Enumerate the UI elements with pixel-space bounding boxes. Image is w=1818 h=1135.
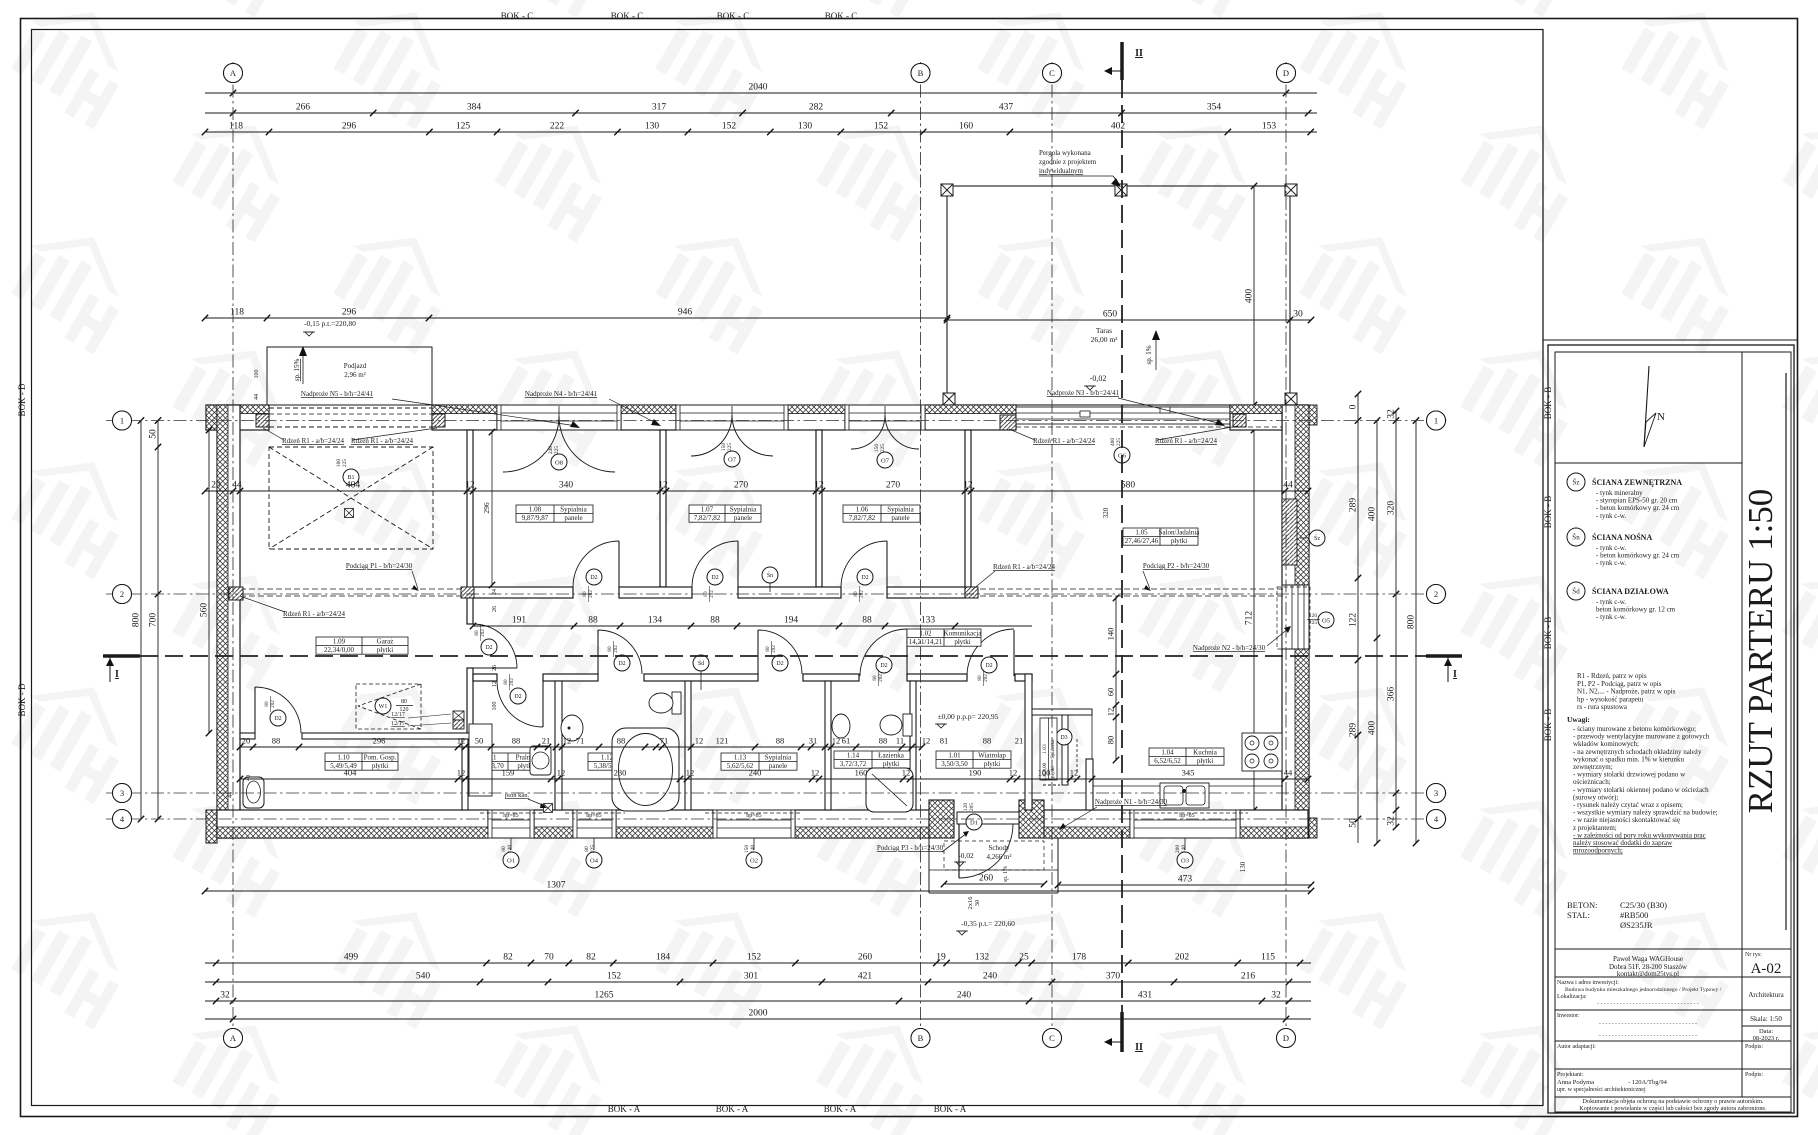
svg-text:BOK - C: BOK - C (611, 11, 644, 21)
W1 workbench dashed (356, 684, 421, 729)
svg-text:384: 384 (467, 103, 482, 113)
svg-text:- tynk c-w.: - tynk c-w. (1596, 559, 1626, 567)
svg-text:580: 580 (1121, 481, 1136, 491)
dim row 118/296/946 (202, 308, 950, 322)
room 1.07 (689, 505, 761, 522)
bottom exterior wall segments (217, 810, 488, 838)
dim row 266/384/317/282/437/354 (205, 103, 1317, 117)
dim row 118..153 (202, 122, 1317, 136)
svg-text:402: 402 (1111, 122, 1126, 132)
svg-text:133: 133 (921, 616, 936, 626)
svg-text:190: 190 (969, 768, 982, 778)
svg-text:D: D (1283, 1033, 1289, 1043)
svg-text:kontakt@dom25tys.pl: kontakt@dom25tys.pl (1617, 970, 1679, 978)
svg-text:O7: O7 (881, 457, 890, 464)
svg-text:121: 121 (716, 736, 729, 746)
svg-text:STAL:: STAL: (1567, 910, 1590, 920)
svg-text:140: 140 (1181, 845, 1187, 854)
svg-text:194: 194 (784, 616, 799, 626)
svg-text:404: 404 (346, 481, 361, 491)
svg-text:12: 12 (557, 768, 566, 778)
svg-text:21: 21 (542, 736, 551, 746)
spizarka rotated table (1040, 718, 1057, 780)
north arrow section (1555, 462, 1742, 464)
kitchen stub wall (1086, 759, 1093, 810)
svg-text:Pom. Gosp.: Pom. Gosp. (364, 753, 397, 761)
left dim col 50/700 (149, 417, 162, 822)
room 1.09 Garaz (316, 637, 408, 654)
title block inner frame (1555, 352, 1791, 1112)
svg-text:44: 44 (1284, 768, 1293, 778)
svg-text:160: 160 (855, 768, 868, 778)
svg-text:1.04: 1.04 (1161, 748, 1174, 756)
svg-text:Kuchnia: Kuchnia (1193, 748, 1218, 756)
svg-text:202: 202 (1175, 953, 1190, 963)
core in right wall (1282, 499, 1297, 565)
svg-text:Podciąg P1 - b/h=24/30: Podciąg P1 - b/h=24/30 (346, 562, 413, 570)
svg-text:153: 153 (1262, 122, 1277, 132)
svg-text:W1: W1 (379, 704, 388, 710)
bottom dim row 499..115 (205, 953, 1311, 967)
svg-text:Lokalizacja:: Lokalizacja: (1557, 994, 1587, 1000)
svg-text:160: 160 (959, 122, 974, 132)
svg-text:-0,02: -0,02 (958, 851, 974, 860)
title area divider line (1542, 30, 1544, 1106)
window O3 kitchen (1130, 810, 1240, 838)
svg-text:- tynk c-w.: - tynk c-w. (1596, 512, 1626, 520)
pergola posts (941, 184, 953, 196)
svg-text:2: 2 (1434, 589, 1438, 599)
svg-text:122: 122 (1349, 613, 1359, 628)
svg-text:Wiatrołap: Wiatrołap (978, 751, 1006, 759)
svg-text:12: 12 (457, 768, 466, 778)
wall type bubbles (762, 567, 778, 583)
section marker I left (103, 654, 140, 658)
room 1.13 (721, 753, 797, 770)
svg-text:88: 88 (588, 616, 598, 626)
svg-text:BOK - A: BOK - A (716, 1104, 749, 1114)
corridor north wall segments (473, 587, 573, 598)
grid bubbles (over lines) (224, 64, 243, 83)
svg-text:88: 88 (512, 736, 521, 746)
svg-text:301: 301 (744, 972, 759, 982)
svg-text:Uwagi:: Uwagi: (1567, 715, 1590, 724)
door pom.gosp (254, 687, 256, 733)
right exterior wall (1282, 405, 1309, 838)
svg-text:202: 202 (480, 629, 486, 637)
spizarka walls (1032, 709, 1092, 715)
svg-text:473: 473 (1178, 875, 1193, 885)
svg-text:130: 130 (645, 122, 660, 132)
svg-text:ŚCIANA ZEWNĘTRZNA: ŚCIANA ZEWNĘTRZNA (1592, 477, 1682, 487)
svg-text:88: 88 (983, 736, 992, 746)
garage south wall (240, 733, 255, 739)
svg-text:40: 40 (246, 775, 252, 781)
svg-text:Schody: Schody (989, 844, 1011, 852)
svg-text:D1: D1 (970, 819, 978, 826)
bottom dim row 32/1265/431/32 (205, 991, 1311, 1005)
corridor south wall segments (473, 674, 497, 681)
svg-text:82: 82 (503, 953, 513, 963)
interior wall 1.07|1.06 (816, 430, 822, 587)
svg-text:650: 650 (1103, 310, 1118, 320)
section line I-I horizontal (140, 655, 1426, 657)
svg-text:499: 499 (344, 953, 359, 963)
svg-text:Śz: Śz (1314, 534, 1320, 542)
svg-text:70: 70 (544, 953, 554, 963)
svg-text:6,52/6,52: 6,52/6,52 (1154, 757, 1181, 765)
svg-text:Rdzeń R1 - a/b=24/24: Rdzeń R1 - a/b=24/24 (993, 563, 1056, 571)
svg-text:12: 12 (658, 481, 668, 491)
svg-text:D2: D2 (514, 694, 521, 700)
svg-text:100: 100 (254, 370, 260, 379)
window reference bubbles below (510, 838, 512, 850)
svg-text:270: 270 (886, 481, 901, 491)
svg-text:C: C (1049, 68, 1055, 78)
svg-text:296: 296 (342, 122, 357, 132)
dim row 650/30 (944, 310, 1314, 324)
svg-text:C: C (1049, 1033, 1055, 1043)
svg-text:Sypialnia: Sypialnia (765, 753, 792, 761)
room 1.12 lazienka (588, 753, 665, 770)
svg-text:26,00 m²: 26,00 m² (1091, 335, 1119, 344)
svg-text:Rdzeń R1 - a/b=24/24: Rdzeń R1 - a/b=24/24 (282, 437, 345, 445)
svg-text:152: 152 (607, 972, 622, 982)
svg-text:32: 32 (1271, 991, 1281, 1001)
svg-text:BETON:: BETON: (1567, 900, 1598, 910)
svg-text:30: 30 (974, 900, 981, 907)
svg-text:50: 50 (149, 429, 159, 439)
svg-text:50: 50 (475, 736, 484, 746)
svg-text:BOK - C: BOK - C (501, 11, 534, 21)
svg-text:O3: O3 (1181, 857, 1189, 864)
section line II-II vertical (1121, 80, 1123, 1012)
svg-text:700: 700 (149, 613, 159, 628)
svg-text:134: 134 (648, 616, 663, 626)
wiatrolap east wall (1025, 674, 1032, 810)
svg-text:płytki: płytki (883, 760, 899, 768)
svg-text:712: 712 (1245, 611, 1255, 626)
svg-text:hp - wysokość parapetu: hp - wysokość parapetu (1577, 695, 1644, 703)
room 1.01 wiatrolap (936, 751, 1011, 768)
svg-text:- tynk c-w.: - tynk c-w. (1596, 613, 1626, 621)
kitchen dim col (1106, 595, 1120, 763)
svg-text:I: I (115, 669, 119, 680)
svg-text:Taras: Taras (1096, 326, 1112, 335)
svg-text:BOK - C: BOK - C (717, 11, 750, 21)
svg-text:Nadproże N5 - b/h=24/41: Nadproże N5 - b/h=24/41 (301, 390, 374, 398)
svg-text:hp=85: hp=85 (586, 813, 601, 819)
lazienka 1.14 sink (832, 714, 850, 738)
salon dim col 712 (1245, 427, 1258, 813)
svg-text:7,82/7,82: 7,82/7,82 (694, 514, 721, 522)
svg-text:3: 3 (120, 788, 124, 798)
svg-text:132: 132 (975, 953, 990, 963)
svg-text:20: 20 (211, 481, 221, 491)
window O2 (713, 810, 795, 838)
svg-text:C25/30 (B30): C25/30 (B30) (1620, 900, 1667, 910)
svg-text:320: 320 (1102, 507, 1110, 518)
svg-text:Projektant:: Projektant: (1557, 1072, 1584, 1078)
garage turning template dashed (269, 447, 433, 549)
svg-text:1307: 1307 (547, 881, 566, 891)
svg-text:Skala: 1:50: Skala: 1:50 (1750, 1015, 1782, 1023)
svg-text:27,46/27,46: 27,46/27,46 (1125, 537, 1159, 545)
svg-text:120: 120 (1309, 613, 1318, 619)
lazienka 1.14 toilet (903, 714, 912, 736)
svg-text:2x16: 2x16 (967, 896, 974, 910)
svg-text:08-2023 r.: 08-2023 r. (1753, 1035, 1780, 1042)
svg-text:20: 20 (242, 736, 251, 746)
svg-text:178: 178 (1072, 953, 1087, 963)
svg-text:118: 118 (230, 308, 244, 318)
svg-text:- - - - - - - - - - - - - - -: - - - - - - - - - - - - - - - - - - - - … (1597, 1001, 1698, 1007)
svg-text:366: 366 (1387, 687, 1397, 702)
svg-text:indywidualnym: indywidualnym (1039, 167, 1083, 175)
svg-text:A: A (230, 68, 237, 78)
svg-text:30: 30 (1293, 310, 1303, 320)
svg-text:Podjazd: Podjazd (344, 362, 367, 370)
kitchen counter line (1093, 785, 1283, 787)
svg-text:202: 202 (878, 674, 884, 682)
entrance porch pilasters (929, 800, 954, 838)
svg-text:340: 340 (559, 481, 574, 491)
svg-text:44: 44 (254, 394, 260, 400)
svg-text:D2: D2 (861, 575, 868, 581)
svg-text:A: A (230, 1033, 237, 1043)
window sill dashed lines (480, 812, 545, 814)
svg-text:Rdzeń R1 - a/b=24/24: Rdzeń R1 - a/b=24/24 (351, 437, 414, 445)
room 1.02 komunikacja (907, 629, 982, 646)
svg-text:225: 225 (554, 446, 560, 455)
svg-text:płytki: płytki (1171, 537, 1187, 545)
svg-text:Sypialnia: Sypialnia (560, 505, 587, 513)
svg-text:437: 437 (999, 103, 1014, 113)
wall segment right of sliding door (1230, 405, 1282, 430)
beam P1 dashed over garage (240, 588, 467, 590)
room 1.11 pralnia (473, 753, 543, 770)
svg-text:400: 400 (1368, 721, 1378, 736)
svg-text:ŚCIANA DZIAŁOWA: ŚCIANA DZIAŁOWA (1592, 586, 1669, 596)
svg-text:Podciąg P3 - b/h=24/30: Podciąg P3 - b/h=24/30 (877, 844, 944, 852)
corridor dim row (470, 616, 1032, 630)
svg-text:Podpis:: Podpis: (1745, 1044, 1763, 1050)
doors to bedrooms 1.08/1.07/1.06 (618, 541, 620, 587)
svg-text:32: 32 (1387, 409, 1397, 419)
svg-text:- - - - - - - - - - - - - - -: - - - - - - - - - - - - - - - - - - - - … (1599, 1033, 1697, 1039)
svg-text:11: 11 (896, 736, 904, 746)
svg-text:71: 71 (660, 736, 669, 746)
svg-text:1.07: 1.07 (701, 505, 714, 513)
svg-text:Nazwa i adres inwestycji:: Nazwa i adres inwestycji: (1557, 980, 1619, 986)
svg-text:Spiżarka: Spiżarka (1050, 739, 1056, 759)
svg-text:- - - - - - - - - - - - - - -: - - - - - - - - - - - - - - - - - - - - … (1599, 1021, 1697, 1027)
svg-text:D2: D2 (880, 663, 887, 669)
svg-text:19: 19 (936, 953, 946, 963)
svg-text:260: 260 (858, 953, 873, 963)
legend Sn (1567, 528, 1585, 546)
svg-text:D2: D2 (618, 661, 625, 667)
svg-text:225: 225 (880, 444, 886, 453)
svg-text:1.03: 1.03 (1042, 744, 1048, 754)
svg-text:panele: panele (564, 514, 582, 522)
entrance door D1 (957, 812, 1019, 824)
svg-text:Data:: Data: (1759, 1028, 1773, 1035)
svg-text:sp. 15%: sp. 15% (293, 359, 301, 382)
svg-text:88: 88 (879, 736, 888, 746)
svg-text:130: 130 (1239, 861, 1247, 872)
svg-text:540: 540 (416, 972, 431, 982)
svg-text:125: 125 (456, 122, 471, 132)
svg-text:Nadproże N1 - b/h=24/30: Nadproże N1 - b/h=24/30 (1095, 798, 1168, 806)
svg-text:ØS235JR: ØS235JR (1620, 920, 1653, 930)
svg-text:1.10: 1.10 (337, 753, 350, 761)
svg-text:12: 12 (492, 681, 498, 687)
doors from corridor to south rooms (597, 630, 599, 674)
cores R1 (diag hatch) (256, 414, 269, 427)
svg-text:140: 140 (1106, 628, 1116, 641)
svg-text:152: 152 (874, 122, 889, 132)
left exterior wall (217, 405, 240, 838)
svg-text:12: 12 (686, 768, 695, 778)
room 1.06 (843, 505, 920, 522)
svg-text:9,87/9,87: 9,87/9,87 (522, 514, 549, 522)
svg-text:Śz: Śz (1573, 479, 1580, 487)
svg-text:400: 400 (1368, 507, 1378, 522)
right wall window O5 (1282, 585, 1309, 649)
svg-text:Inwestor:: Inwestor: (1557, 1013, 1580, 1019)
window O8 (497, 405, 621, 430)
room 1.04 kuchnia (1149, 748, 1224, 765)
svg-text:88: 88 (862, 616, 872, 626)
svg-text:O5: O5 (1322, 617, 1330, 624)
svg-text:152: 152 (722, 122, 737, 132)
section marker II bottom (1120, 1012, 1124, 1052)
svg-text:100: 100 (492, 702, 498, 711)
room 1.14 lazienka (834, 751, 910, 768)
svg-text:202: 202 (983, 674, 989, 682)
svg-text:800: 800 (1407, 615, 1417, 630)
svg-text:205: 205 (969, 803, 975, 812)
svg-text:±0,00 p.p.p= 220,95: ±0,00 p.p.p= 220,95 (938, 712, 999, 721)
svg-text:D3: D3 (1060, 735, 1067, 741)
svg-text:32: 32 (1387, 816, 1397, 826)
svg-text:400: 400 (1245, 289, 1255, 304)
svg-text:1.02: 1.02 (919, 629, 932, 637)
svg-text:222: 222 (550, 122, 565, 132)
svg-text:202: 202 (771, 645, 777, 653)
svg-text:Podciąg P2 - b/h=24/30: Podciąg P2 - b/h=24/30 (1143, 562, 1210, 570)
svg-text:282: 282 (809, 103, 824, 113)
svg-text:100: 100 (1038, 768, 1051, 778)
svg-text:-0,35 p.t.= 220,60: -0,35 p.t.= 220,60 (961, 919, 1015, 928)
svg-text:80: 80 (401, 699, 407, 705)
svg-text:panele: panele (891, 514, 909, 522)
svg-text:296: 296 (482, 502, 491, 514)
svg-text:I: I (1453, 669, 1457, 680)
svg-text:upr. w specjalności architekto: upr. w specjalności architektonicznej (1557, 1087, 1646, 1093)
svg-text:225: 225 (590, 845, 596, 854)
svg-text:płytki: płytki (984, 760, 1000, 768)
svg-text:płytki: płytki (954, 638, 970, 646)
svg-text:44: 44 (1283, 481, 1293, 491)
svg-text:289: 289 (1349, 498, 1359, 513)
svg-text:płytki: płytki (372, 762, 388, 770)
svg-text:A-02: A-02 (1751, 961, 1782, 977)
svg-text:D2: D2 (711, 575, 718, 581)
svg-text:21: 21 (1015, 736, 1024, 746)
chimney 12/17 blocks (453, 711, 464, 720)
svg-text:Anna Podyma: Anna Podyma (1557, 1079, 1594, 1086)
left dim col 800 (132, 417, 145, 822)
svg-text:404: 404 (344, 768, 358, 778)
svg-text:345: 345 (1182, 768, 1195, 778)
svg-text:800: 800 (132, 613, 142, 628)
svg-text:25: 25 (1019, 953, 1029, 963)
svg-text:2000: 2000 (749, 1009, 768, 1019)
bottom-left corner wall block (206, 810, 217, 843)
svg-text:#RB500: #RB500 (1620, 910, 1648, 920)
svg-text:1.14: 1.14 (847, 751, 860, 759)
dim row 473 (1055, 875, 1314, 889)
svg-text:266: 266 (296, 103, 311, 113)
right dim col 1 (1349, 391, 1362, 843)
bottom dim row 540..216 (205, 972, 1311, 986)
garage dim col 560 (200, 427, 213, 736)
svg-text:O8: O8 (555, 459, 563, 466)
svg-text:31: 31 (809, 736, 818, 746)
room 1.05 salon (1123, 528, 1200, 545)
lazienka 1.12 bathtub (612, 728, 679, 811)
svg-text:12: 12 (922, 736, 931, 746)
svg-text:152: 152 (747, 953, 762, 963)
svg-text:1.13: 1.13 (734, 753, 747, 761)
svg-text:140: 140 (750, 845, 756, 854)
svg-text:12: 12 (902, 768, 911, 778)
svg-text:88: 88 (776, 736, 785, 746)
svg-text:O7: O7 (728, 456, 737, 463)
svg-text:hp=85: hp=85 (503, 813, 518, 819)
svg-text:Komunikacja: Komunikacja (944, 629, 983, 637)
svg-text:230: 230 (614, 768, 627, 778)
tub in pom.gosp (243, 777, 264, 808)
svg-text:O1: O1 (507, 857, 515, 864)
svg-text:1: 1 (120, 416, 124, 426)
room 1.10 (325, 753, 398, 770)
svg-text:D2: D2 (776, 661, 783, 667)
svg-text:- 120A/Tbg/94: - 120A/Tbg/94 (1628, 1079, 1668, 1086)
svg-text:12: 12 (1106, 708, 1116, 717)
svg-text:Rdzeń R1 - a/b=24/24: Rdzeń R1 - a/b=24/24 (1033, 437, 1096, 445)
svg-text:Paweł Waga WAGHouse: Paweł Waga WAGHouse (1613, 955, 1683, 963)
svg-text:130: 130 (798, 122, 813, 132)
pralnia counter + washer (469, 724, 492, 796)
svg-text:zgodnie z projektem: zgodnie z projektem (1039, 158, 1097, 166)
svg-text:60: 60 (1106, 688, 1116, 697)
svg-text:7,82/7,82: 7,82/7,82 (849, 514, 876, 522)
interior dim row rooms widths (202, 481, 1311, 495)
window O7 (1.06) (845, 405, 925, 430)
svg-text:50: 50 (1349, 818, 1359, 828)
svg-text:RZUT PARTERU 1:50: RZUT PARTERU 1:50 (1741, 489, 1780, 814)
svg-text:BOK - A: BOK - A (934, 1104, 967, 1114)
svg-text:Sypialnia: Sypialnia (730, 505, 757, 513)
window O4 (573, 810, 616, 838)
svg-text:Nadproże N4 - b/h=24/41: Nadproże N4 - b/h=24/41 (525, 390, 598, 398)
row grid lines 1 2 3 4 (106, 420, 1448, 422)
svg-text:71: 71 (576, 736, 585, 746)
svg-text:82: 82 (586, 953, 596, 963)
